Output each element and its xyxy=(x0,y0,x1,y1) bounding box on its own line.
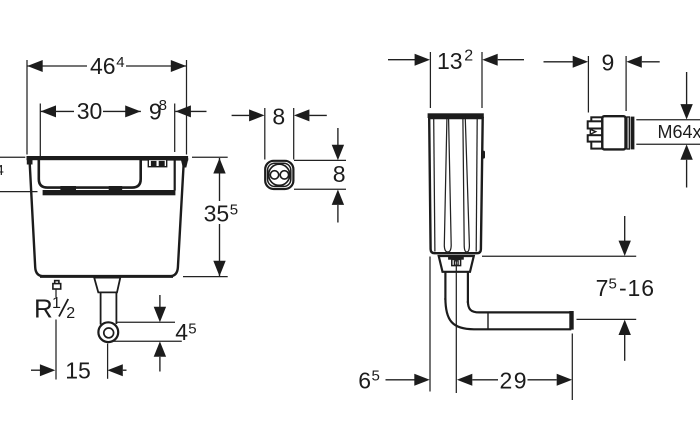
flush bend: end cap xyxy=(569,311,573,330)
dimension 7^5-16 bottom arrow xyxy=(619,320,631,361)
dimension 8 vertical arrows xyxy=(332,128,344,223)
dimension 9^8 extension line right xyxy=(174,104,176,153)
svg-text:13: 13 xyxy=(437,48,463,74)
dimension M64 arrows xyxy=(680,72,692,188)
svg-text:5: 5 xyxy=(372,368,380,385)
cistern front view: valve clip box xyxy=(148,159,166,167)
dimension 15 line and arrows xyxy=(31,358,127,384)
svg-text:-16: -16 xyxy=(619,275,654,301)
cistern side view: centerline xyxy=(455,260,457,394)
cistern front view: tab left xyxy=(60,186,76,190)
actuator rod cross-section: outer rounded square xyxy=(265,161,293,189)
dimension 7^5-16 extension line bottom xyxy=(577,318,637,320)
dimension 4^5 label xyxy=(175,319,196,345)
svg-text:2: 2 xyxy=(464,48,473,65)
dimension 46^4 extension line right xyxy=(186,60,188,155)
cistern front view: inner access opening xyxy=(39,158,141,188)
dimension 35^5 line and arrows xyxy=(213,158,225,276)
actuator rod cross-section: left hole xyxy=(270,171,278,179)
dimension 9^8 label xyxy=(149,97,167,125)
cistern side view: inner wall lines xyxy=(434,119,478,252)
svg-text:4: 4 xyxy=(0,162,4,179)
svg-text:5: 5 xyxy=(230,201,238,218)
pipe centerline extension xyxy=(107,344,109,379)
cistern front view: flush valve neck xyxy=(94,278,120,293)
cistern front view: tab right xyxy=(109,186,123,190)
dimension 13^2 extension lines xyxy=(430,52,482,108)
cistern front view: tank body xyxy=(29,158,184,277)
svg-text:29: 29 xyxy=(500,368,527,394)
cistern side view: right wall tab xyxy=(481,151,485,159)
svg-text:35: 35 xyxy=(204,201,230,227)
cistern front view: clip square left xyxy=(151,161,157,167)
svg-text:M64x: M64x xyxy=(658,122,700,142)
actuator rod cross-section: inner rounded square xyxy=(268,163,291,186)
cistern front view: lid left cap xyxy=(27,160,33,165)
dimension 30 label xyxy=(74,98,103,124)
cistern front view: clip square right xyxy=(159,161,165,167)
dimension 29 arrows and label xyxy=(457,368,572,394)
svg-text:8: 8 xyxy=(272,103,285,129)
dimension 4^5 arrows xyxy=(154,295,166,372)
cistern front view: pipe elbow ball outer xyxy=(98,322,118,342)
dimension 9 extension lines xyxy=(588,56,626,113)
dimension 46^4 extension line left xyxy=(26,60,28,155)
cistern front view: flush pipe xyxy=(101,292,117,324)
dimension 30 line and arrows xyxy=(40,105,141,117)
cistern side view: interior taper lines xyxy=(444,119,469,252)
cistern side view: flush valve neck xyxy=(439,256,474,272)
nipple fitting: body xyxy=(602,116,625,149)
cistern front view: lid xyxy=(27,156,189,160)
dimension 4^5 extension lines xyxy=(112,322,182,341)
svg-text:46: 46 xyxy=(90,53,116,79)
svg-text:4: 4 xyxy=(116,54,124,71)
nipple fitting: threaded end xyxy=(588,117,603,148)
dimension 46^4 label xyxy=(87,53,126,79)
nipple fitting: ring xyxy=(627,117,629,149)
dimension 35^5 extension line top xyxy=(192,156,228,158)
dimension 29 extension line right xyxy=(571,334,573,401)
dimension M64 extension lines xyxy=(636,120,700,145)
actuator rod cross-section: circle xyxy=(269,164,290,185)
dimension 30 extension line left xyxy=(39,104,41,157)
dimension 8 horizontal arrows xyxy=(232,109,327,121)
flush bend: elbow outer xyxy=(445,298,571,329)
dimension 8 horizontal extension lines xyxy=(265,108,294,160)
dimension 6^5 label and arrow xyxy=(358,367,429,393)
dimension 13^2 label xyxy=(437,48,473,74)
label R1/2 and leader line xyxy=(34,289,75,379)
clipped dimension 4 at left edge xyxy=(0,157,38,191)
nipple fitting: flange xyxy=(631,117,635,150)
dimension 7^5-16 extension line top xyxy=(482,255,636,257)
dimension 6^5 extension line xyxy=(429,257,431,392)
dimension 35^5 label xyxy=(201,201,241,227)
dimension 9 arrows xyxy=(544,56,660,68)
cistern side view: lid xyxy=(428,113,484,118)
svg-text:15: 15 xyxy=(65,358,91,384)
cistern front view: thick shelf bar xyxy=(43,190,176,195)
svg-text:1: 1 xyxy=(52,295,61,312)
dimension 46^4 line and arrows xyxy=(27,60,187,72)
dimension 9^8 outside arrow xyxy=(175,105,206,117)
actuator rod cross-section: right hole xyxy=(280,171,288,179)
svg-text:R: R xyxy=(34,294,53,324)
cistern front view: water inlet nub R1/2 xyxy=(53,281,61,289)
svg-text:2: 2 xyxy=(66,305,75,322)
dimension 7^5-16 top arrow xyxy=(619,216,631,256)
flush bend: elbow inner and pipe top xyxy=(468,301,570,312)
svg-text:4: 4 xyxy=(175,319,188,345)
svg-text:30: 30 xyxy=(77,98,103,124)
flush bend: vertical pipe xyxy=(445,272,468,303)
svg-text:8: 8 xyxy=(333,161,346,187)
cistern side view: neck top bar xyxy=(448,257,464,260)
cistern front view: right compartment wall xyxy=(174,158,176,191)
dimension 13^2 arrows xyxy=(388,54,524,66)
cistern side view: tank body xyxy=(429,118,483,253)
dimension 8 vertical extension lines xyxy=(294,160,346,189)
cistern front view: pipe elbow ball inner xyxy=(104,328,114,338)
svg-text:9: 9 xyxy=(602,49,615,75)
cistern front view: lid right cap xyxy=(181,160,188,167)
dimension 35^5 extension line bottom xyxy=(183,276,228,278)
svg-text:5: 5 xyxy=(609,275,617,292)
svg-text:8: 8 xyxy=(159,97,167,114)
dimension 7^5-16 label xyxy=(596,275,654,301)
cistern side view: neck clip xyxy=(452,259,461,265)
svg-text:7: 7 xyxy=(596,275,609,301)
cistern front view: strip under lid right xyxy=(141,158,189,161)
svg-text:6: 6 xyxy=(358,367,371,393)
svg-text:5: 5 xyxy=(188,320,196,337)
flush bend: socket joint line xyxy=(487,312,489,329)
